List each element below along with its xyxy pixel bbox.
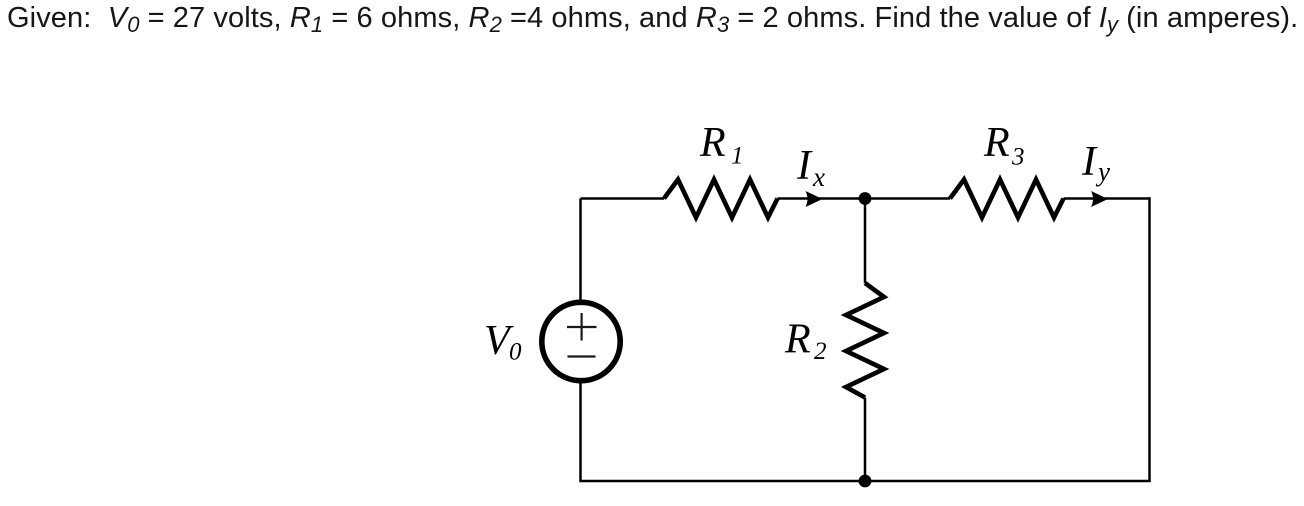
svg-text:I: I (796, 143, 813, 189)
svg-text:R: R (699, 120, 726, 166)
svg-text:2: 2 (814, 338, 827, 365)
svg-text:1: 1 (731, 143, 744, 170)
svg-text:I: I (1081, 139, 1098, 185)
svg-text:R: R (784, 317, 811, 363)
svg-text:y: y (1095, 157, 1110, 187)
svg-text:x: x (812, 162, 825, 192)
svg-text:3: 3 (1011, 144, 1025, 171)
svg-text:R: R (983, 120, 1010, 166)
svg-text:0: 0 (509, 339, 522, 366)
